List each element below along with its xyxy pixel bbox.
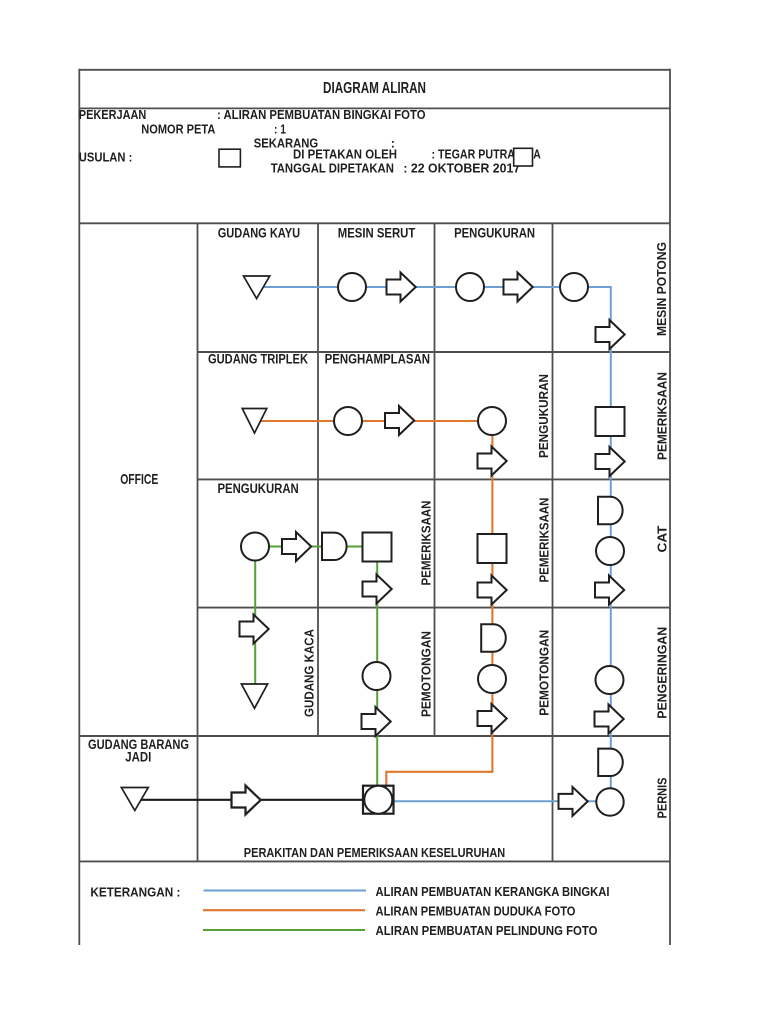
svg-text:ALIRAN PEMBUATAN DUDUKA FOTO: ALIRAN PEMBUATAN DUDUKA FOTO bbox=[376, 903, 576, 918]
svg-text:: 22 OKTOBER 2017: : 22 OKTOBER 2017 bbox=[403, 162, 520, 176]
svg-text:CAT: CAT bbox=[655, 525, 670, 552]
svg-text:NOMOR PETA: NOMOR PETA bbox=[141, 123, 215, 137]
svg-text:KETERANGAN :: KETERANGAN : bbox=[90, 885, 180, 900]
svg-text:PERNIS: PERNIS bbox=[655, 777, 670, 818]
svg-text:GUDANG KAYU: GUDANG KAYU bbox=[218, 225, 300, 240]
svg-text:MESIN POTONG: MESIN POTONG bbox=[654, 242, 669, 336]
svg-text:MESIN SERUT: MESIN SERUT bbox=[338, 225, 416, 240]
svg-text:PEMERIKSAAN: PEMERIKSAAN bbox=[419, 501, 434, 586]
svg-text:A: A bbox=[533, 148, 541, 162]
svg-text:JADI: JADI bbox=[125, 749, 151, 764]
svg-text:: 1: : 1 bbox=[274, 123, 286, 137]
svg-text:PEMERIKSAAN: PEMERIKSAAN bbox=[536, 498, 551, 583]
svg-text:ALIRAN PEMBUATAN PELINDUNG FOT: ALIRAN PEMBUATAN PELINDUNG FOTO bbox=[376, 923, 598, 938]
svg-text:DIAGRAM ALIRAN: DIAGRAM ALIRAN bbox=[323, 80, 426, 97]
svg-text:PEMOTONGAN: PEMOTONGAN bbox=[419, 631, 434, 717]
svg-text:PENGERINGAN: PENGERINGAN bbox=[655, 627, 670, 719]
svg-text:PEKERJAAN: PEKERJAAN bbox=[79, 108, 147, 122]
svg-text:PENGHAMPLASAN: PENGHAMPLASAN bbox=[325, 352, 430, 367]
svg-text:PENGUKURAN: PENGUKURAN bbox=[536, 374, 551, 458]
svg-text:PENGUKURAN: PENGUKURAN bbox=[454, 225, 535, 240]
svg-text:PEMOTONGAN: PEMOTONGAN bbox=[536, 630, 551, 716]
svg-text:GUDANG KACA: GUDANG KACA bbox=[302, 628, 317, 717]
svg-text:: ALIRAN PEMBUATAN BINGKAI FOT: : ALIRAN PEMBUATAN BINGKAI FOTO bbox=[217, 108, 426, 122]
svg-text:PEMERIKSAAN: PEMERIKSAAN bbox=[655, 372, 670, 460]
svg-text:: TEGAR PUTRA: : TEGAR PUTRA bbox=[432, 148, 516, 162]
svg-text:DI PETAKAN OLEH: DI PETAKAN OLEH bbox=[293, 148, 397, 162]
svg-text:PERAKITAN DAN PEMERIKSAAN KESE: PERAKITAN DAN PEMERIKSAAN KESELURUHAN bbox=[244, 845, 505, 860]
svg-text:OFFICE: OFFICE bbox=[120, 472, 158, 488]
svg-text:PENGUKURAN: PENGUKURAN bbox=[217, 481, 298, 496]
svg-text:ALIRAN PEMBUATAN KERANGKA BING: ALIRAN PEMBUATAN KERANGKA BINGKAI bbox=[376, 884, 610, 899]
svg-text:TANGGAL DIPETAKAN: TANGGAL DIPETAKAN bbox=[271, 162, 394, 176]
svg-text:GUDANG TRIPLEK: GUDANG TRIPLEK bbox=[208, 352, 308, 367]
svg-text:USULAN :: USULAN : bbox=[79, 151, 133, 165]
